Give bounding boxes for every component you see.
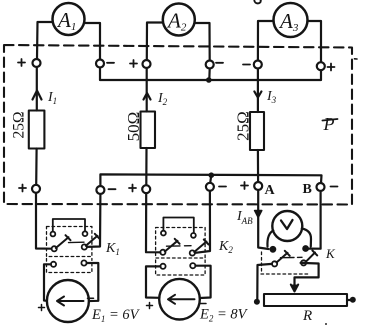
wire E1 left lead: [44, 264, 51, 301]
wire node A down: [258, 190, 268, 249]
terminal - (branch1 bottom right): [96, 186, 104, 194]
ammeter A3: [274, 3, 308, 37]
svg-text:E1 = 6V: E1 = 6V: [91, 307, 141, 324]
svg-text:R: R: [302, 308, 312, 324]
wire voltmeter left lead: [267, 231, 273, 247]
switch K dotted housing bottom: [261, 252, 310, 274]
switch K right blade: [306, 251, 317, 262]
svg-text:K: K: [325, 246, 336, 261]
terminal node B: [317, 183, 325, 191]
plus sign: [129, 185, 136, 192]
wire A1 left lead: [37, 22, 53, 59]
wire bottom bus: [100, 174, 321, 186]
wire R right stub: [347, 299, 350, 301]
plus sign: [19, 185, 26, 192]
terminal + (branch2 top): [143, 60, 151, 68]
switch K2 link (dash-dot): [167, 245, 192, 248]
junction dot R left: [254, 299, 260, 305]
switch K1 left blade: [56, 235, 71, 248]
plus sign: [328, 64, 335, 71]
junction dot: [206, 77, 212, 83]
junction dot: [209, 172, 215, 178]
wire E1 right lead: [87, 263, 99, 301]
plus sign: [130, 60, 137, 67]
switch K left blade: [277, 251, 290, 263]
wire branch1 lower: [35, 149, 38, 185]
rheostat R: [264, 294, 347, 306]
svg-text:25Ω: 25Ω: [10, 111, 27, 138]
switch K1 bracket: [53, 219, 85, 232]
wire E2 left lead: [146, 266, 160, 297]
junction dot R right: [350, 297, 356, 303]
wire A3 right lead: [308, 21, 322, 62]
current arrow I1: [33, 91, 42, 100]
svg-text:P: P: [323, 114, 335, 134]
wire top bus: [100, 68, 321, 81]
wire A2 left lead: [147, 23, 163, 61]
minus sign: [216, 62, 223, 64]
switch K2 left blade: [165, 239, 180, 252]
terminal - (branch1 top right): [96, 60, 104, 68]
wire A2 bottom stub: [210, 175, 211, 183]
switch K2 dotted housing: [156, 228, 206, 259]
switch K2 middle contacts: [160, 250, 165, 255]
wire K1 right feed: [87, 194, 100, 247]
wire branch3 upper: [257, 69, 259, 113]
svg-text:B: B: [303, 182, 312, 197]
terminal - (branch2 top right): [206, 61, 214, 69]
minus sign: [107, 62, 114, 64]
plus sign: [18, 59, 25, 66]
switch K1 upper contacts: [51, 232, 56, 237]
voltmeter V: [272, 211, 302, 241]
wire K to R left end: [257, 264, 272, 299]
wire node B down: [309, 191, 321, 249]
switch K1 right blade: [86, 234, 100, 246]
wire K2 right feed: [196, 191, 211, 253]
panel P dashed border: [4, 45, 352, 205]
minus sign: [243, 64, 250, 66]
resistor R1 25ohm: [29, 111, 45, 149]
border roughness dash: [355, 58, 358, 60]
svg-text:E2 = 8V: E2 = 8V: [199, 307, 249, 324]
switch K2 right blade: [194, 240, 208, 253]
current arrow IAB (down): [255, 211, 262, 218]
ammeter A1: [53, 3, 85, 35]
speck below R label: [325, 323, 327, 325]
svg-text:25Ω: 25Ω: [233, 111, 252, 141]
wire branch2 lower: [145, 148, 147, 185]
resistor R2 50ohm: [141, 112, 156, 149]
switch K1 dotted housing: [47, 227, 92, 257]
source E1: [47, 280, 89, 322]
switch K upper contacts: [270, 247, 275, 252]
switch K1 bottom contacts: [51, 262, 56, 267]
wire K2 left feed: [146, 193, 160, 252]
ammeter A2: [163, 4, 195, 36]
plus sign E2: [147, 303, 153, 309]
terminal - (branch3 top): [254, 61, 262, 69]
wire A1 right lead: [85, 23, 101, 59]
plus sign: [241, 182, 248, 189]
plus sign E1: [39, 305, 45, 311]
current arrow I2: [144, 93, 151, 100]
wire A2 minus stub: [208, 69, 211, 81]
svg-text:A: A: [265, 183, 276, 198]
switch K lower contacts: [272, 261, 277, 266]
source E2: [159, 279, 200, 320]
terminal + (branch2 bottom): [142, 185, 150, 193]
wire K to R wiper: [295, 263, 319, 288]
switch K link (dash-dot): [281, 256, 303, 258]
wire branch2 upper: [146, 68, 148, 112]
switch K2 bottom contacts: [160, 264, 165, 269]
switch K1 middle contacts: [52, 246, 57, 251]
current arrow I3 (down): [254, 92, 261, 98]
wiper arrow head: [291, 285, 298, 292]
wire branch3 lower: [257, 150, 259, 182]
minus sign: [331, 186, 338, 188]
terminal + node A: [254, 182, 262, 190]
wire E2 right lead: [195, 266, 210, 298]
terminal + (branch3 top right): [317, 62, 325, 70]
minus sign: [109, 188, 116, 190]
minus sign E1: [88, 297, 94, 299]
minus sign E2: [200, 303, 206, 305]
terminal + (branch1 bottom): [32, 185, 40, 193]
wire branch1 upper: [36, 67, 38, 111]
switch K2 bracket: [163, 218, 193, 233]
resistor R3 25ohm: [250, 112, 264, 150]
wire A2 right lead: [195, 23, 210, 60]
E1 emf arrow: [57, 297, 84, 306]
minus sign: [219, 186, 226, 188]
terminal - (branch2 bottom right): [206, 183, 214, 191]
wire A3 left lead: [258, 21, 274, 60]
stray glyph b (top edge): [254, 0, 260, 3]
E2 emf arrow: [168, 295, 195, 304]
wire voltmeter right lead: [302, 229, 311, 247]
svg-text:50Ω: 50Ω: [124, 112, 143, 142]
wire K1 left feed: [36, 193, 52, 249]
terminal + (branch1 top): [33, 59, 41, 67]
switch K2 upper contacts: [161, 231, 166, 236]
switch K1 link (dash-dot): [69, 241, 85, 243]
